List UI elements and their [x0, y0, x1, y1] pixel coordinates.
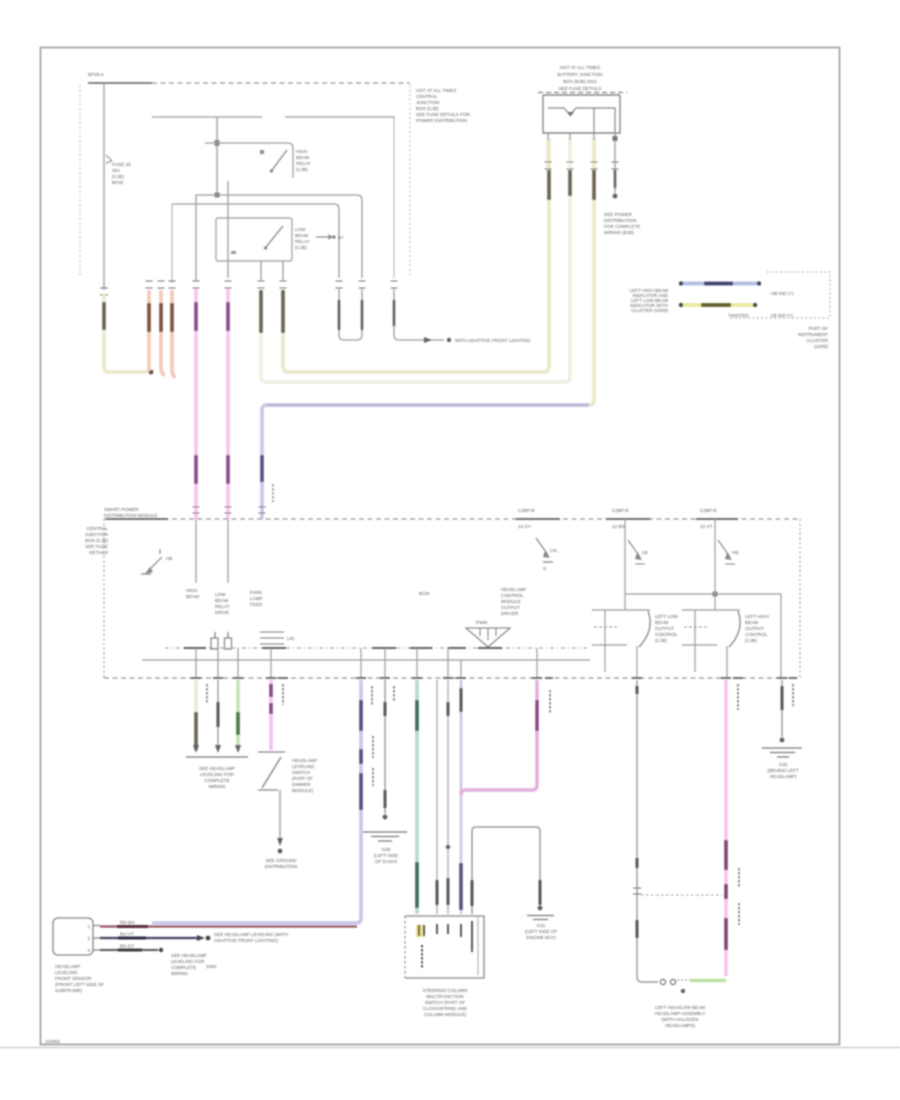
svg-text:BP29: BP29 — [112, 180, 124, 185]
svg-text:(BEHIND LEFT: (BEHIND LEFT — [767, 768, 799, 773]
svg-text:HIGH: HIGH — [296, 149, 307, 154]
connectors on teal output — [415, 700, 419, 908]
svg-text:FEED: FEED — [250, 602, 263, 607]
svg-text:G32: G32 — [779, 762, 788, 767]
wire: pink high beam output to headlamp — [724, 680, 728, 976]
svg-text:BP29-A: BP29-A — [88, 72, 105, 77]
wire: module bottom dashed boundary — [104, 677, 800, 679]
pin ticks lavender drop at module — [259, 507, 266, 513]
relay K3: low beam output relay — [592, 610, 650, 678]
wire: gray sensor return with terminus — [100, 949, 158, 951]
svg-text:BOX (BJB) 2011: BOX (BJB) 2011 — [563, 79, 597, 84]
node: hot-at-all-times bus segment (dark) — [88, 82, 152, 84]
wire: gray output 2 to column switch — [447, 680, 449, 914]
svg-text:WITH ADAPTIVE FRONT LIGHTING: WITH ADAPTIVE FRONT LIGHTING — [455, 338, 531, 343]
svg-text:12 BN: 12 BN — [612, 524, 625, 529]
svg-text:POWER DISTRIBUTION: POWER DISTRIBUTION — [416, 118, 467, 123]
label: switch S2 — [292, 758, 317, 793]
svg-text:LOW: LOW — [215, 592, 226, 597]
connector on ground G3 wire — [781, 686, 784, 710]
terminus dot off-page link — [447, 338, 451, 342]
wire: shield drain loop — [472, 827, 540, 914]
svg-text:HB: HB — [166, 556, 172, 561]
arrowhead navy signal — [197, 935, 205, 941]
connectors on pink feeds (upper) — [196, 302, 228, 331]
wire: left feed lower (natural/cream) to splice — [104, 293, 148, 372]
wire: maroon sensor feed — [100, 925, 357, 927]
label: headlamp leveling reference — [199, 766, 235, 789]
svg-text:2: 2 — [87, 936, 90, 941]
svg-text:SWITCH: SWITCH — [292, 770, 310, 775]
svg-text:PART OF: PART OF — [809, 326, 829, 331]
junction: feed drop joins line A — [215, 193, 220, 198]
wire: gray stub above pink 1 — [195, 204, 197, 281]
bracket line to leveling motor — [186, 756, 248, 758]
wire: internal bus bar right — [285, 116, 395, 118]
pin ticks pink pair — [193, 281, 232, 288]
svg-text:WIRING: WIRING — [171, 971, 189, 976]
pin ticks gray loop pair — [336, 281, 366, 288]
wire code labels beside lavender output — [372, 686, 394, 786]
connector on magenta output — [535, 700, 538, 731]
svg-text:C2BP-B: C2BP-B — [612, 508, 629, 513]
wire: magenta output to leveling switch — [269, 680, 273, 750]
svg-text:HEADLAMP ASSEMBLY: HEADLAMP ASSEMBLY — [655, 1011, 706, 1016]
wire: left feed from CJB (gray upper part) — [103, 83, 105, 290]
connector on right gray feed — [393, 300, 396, 326]
svg-text:TWISTED: TWISTED — [728, 313, 749, 318]
component: internal ladder element — [260, 632, 294, 644]
svg-text:BEAM: BEAM — [655, 620, 668, 625]
svg-text:S: S — [543, 566, 546, 571]
label: module name at left — [85, 526, 109, 555]
wire: internal bus bar left — [152, 116, 262, 118]
junction: supply bus to relay K4 feed — [713, 592, 718, 597]
connector on violet link lower — [459, 863, 463, 910]
connectors on gray loop — [339, 300, 362, 330]
wire: feed drop from bus to relay K1 — [216, 117, 218, 195]
ground symbol G3 — [762, 748, 802, 757]
pin number column — [421, 945, 423, 968]
wire: relay K1 output drop — [227, 181, 229, 278]
component: internal contact pair 1 — [211, 632, 232, 649]
connector pin segments on module bottom (right group) — [632, 677, 797, 679]
relay K1 switch blade — [260, 150, 287, 173]
connector label segments on internal rail — [184, 647, 502, 649]
footer separator line — [0, 1047, 900, 1049]
svg-text:BU-VT: BU-VT — [120, 932, 134, 937]
svg-text:DISTRIBUTION MODULE: DISTRIBUTION MODULE — [104, 513, 157, 518]
svg-text:SEE FUSE DETAILS: SEE FUSE DETAILS — [559, 86, 602, 91]
svg-text:SEE FUSE DETAILS FOR: SEE FUSE DETAILS FOR — [416, 112, 470, 117]
svg-text:SEE FUSE: SEE FUSE — [85, 544, 108, 549]
wire: right gray feed with off-page arrow — [394, 289, 444, 340]
svg-text:SEE GROUND: SEE GROUND — [266, 858, 298, 863]
svg-text:HB IND (+): HB IND (+) — [771, 291, 794, 296]
svg-text:HEADLAMP): HEADLAMP) — [770, 774, 797, 779]
svg-text:SEE HEADLAMP: SEE HEADLAMP — [199, 766, 235, 771]
wire: cream run B (relay K2 to BJB fuse pin 2) — [261, 138, 570, 382]
svg-text:LVL: LVL — [550, 548, 558, 553]
svg-text:LOW: LOW — [295, 227, 306, 232]
svg-text:C2BP-B: C2BP-B — [700, 508, 717, 513]
wire: jog between line A and line B — [195, 195, 197, 204]
connectors on lavender output — [359, 700, 363, 810]
arrowhead on ground leg — [277, 838, 283, 846]
svg-text:LEVELING FOR: LEVELING FOR — [171, 959, 205, 964]
wire: gray low beam output to headlamp — [637, 680, 658, 982]
label: headlamp control block — [501, 587, 526, 616]
wire: red feed 2 — [161, 290, 165, 375]
connector on cream run B left leg — [259, 290, 263, 333]
svg-text:CENTRAL: CENTRAL — [87, 526, 109, 531]
connectors on shield drain loop — [472, 880, 540, 906]
splice junction dot red/cream — [149, 370, 154, 375]
relay K4 feed drop — [714, 519, 716, 610]
svg-text:MODULE: MODULE — [501, 599, 521, 604]
wire code label beside cream output — [206, 684, 208, 703]
connectors on gray ground wire — [384, 702, 387, 808]
svg-text:SUBFRAME): SUBFRAME) — [55, 988, 83, 993]
relay K2 switch blade — [231, 226, 283, 254]
connectors on gray output 2 — [447, 702, 450, 905]
wire: green bulb jumper — [690, 979, 726, 982]
label: wire code beside lavender drop — [272, 484, 274, 502]
wire: cream run A (relay K2 to BJB fuse pin 1) — [283, 138, 549, 372]
inline connector bracket on low beam wire — [633, 888, 641, 894]
label: relay K3 — [655, 614, 679, 643]
wire: cream output to headlamp leveling — [194, 680, 198, 751]
svg-text:RELAY: RELAY — [215, 604, 230, 609]
connector on green output — [236, 712, 240, 735]
internal drop pink feed 1 — [195, 519, 197, 583]
svg-text:FRONT SENSOR: FRONT SENSOR — [55, 976, 92, 981]
fuse F2 element — [548, 108, 594, 117]
pin ticks right gray feed — [391, 281, 398, 288]
svg-text:C2BP-B: C2BP-B — [518, 508, 535, 513]
terminus dots blue lead — [679, 281, 683, 285]
svg-text:LEVELING: LEVELING — [55, 970, 78, 975]
svg-text:(CJB): (CJB) — [296, 167, 308, 172]
label: sensor name — [55, 964, 105, 993]
switch glyph at relay K4 feed — [718, 540, 738, 564]
wire: CJB top dashed boundary — [152, 82, 410, 84]
wire: gray output 1 to column switch — [436, 680, 438, 914]
connector pin segments on module bottom (left group) — [191, 677, 288, 679]
terminus dot gray return — [159, 948, 163, 952]
svg-text:CLOCKSPRING AND: CLOCKSPRING AND — [423, 1006, 468, 1011]
svg-text:PWM: PWM — [476, 620, 487, 625]
wire: pink high beam feed 1 — [194, 289, 198, 519]
svg-text:HIGH: HIGH — [186, 588, 197, 593]
wire: lavender output (headlamp leveling sensor feed) — [152, 680, 361, 923]
svg-text:10 VT: 10 VT — [700, 524, 712, 529]
connector: steering column multifunction switch — [405, 916, 484, 978]
connector on BJB pin 3 leg — [592, 170, 596, 200]
wire code stub beside magenta output — [549, 690, 551, 714]
wire: module left boundary — [103, 519, 105, 678]
svg-text:SMART POWER: SMART POWER — [104, 507, 139, 512]
pin stubs below BJB — [548, 133, 615, 142]
pin marker pad — [416, 925, 425, 937]
svg-text:1: 1 — [87, 924, 90, 929]
svg-text:3: 3 — [87, 948, 90, 953]
svg-text:BEAM: BEAM — [296, 155, 309, 160]
svg-text:DRIVE: DRIVE — [215, 610, 229, 615]
relay K1: high beam relay top bar — [205, 143, 293, 178]
label: relay K2 with leader arrow — [295, 227, 344, 250]
svg-text:DISTRIBUTION: DISTRIBUTION — [604, 218, 636, 223]
svg-text:HEADLAMP: HEADLAMP — [292, 758, 317, 763]
svg-text:CONTROL: CONTROL — [655, 632, 678, 637]
svg-text:ADAPTIVE FRONT LIGHTING): ADAPTIVE FRONT LIGHTING) — [214, 938, 279, 943]
svg-text:LEVELING FOR: LEVELING FOR — [200, 772, 234, 777]
relay K2: low beam relay body — [216, 218, 292, 261]
svg-text:BEAM: BEAM — [215, 598, 228, 603]
svg-text:OUTPUT: OUTPUT — [655, 626, 674, 631]
label segment on gray return — [118, 949, 142, 952]
svg-text:HEADLAMPS): HEADLAMPS) — [665, 1023, 695, 1028]
wire: pin 4 stub to terminus — [614, 140, 616, 193]
svg-text:PARK: PARK — [250, 590, 263, 595]
svg-text:RD-BN: RD-BN — [120, 920, 135, 925]
svg-text:CLUSTER: CLUSTER — [807, 338, 829, 343]
relay K3 feed drop — [624, 519, 626, 610]
svg-text:FUSE 29: FUSE 29 — [112, 162, 131, 167]
pin ticks cream pair from relay K2 — [258, 281, 287, 288]
svg-text:SWITCH (PART OF: SWITCH (PART OF — [425, 1000, 466, 1005]
pin stubs inside connector — [419, 921, 472, 952]
svg-text:(WITH HALOGEN: (WITH HALOGEN — [661, 1017, 698, 1022]
connector on left cream feed — [102, 302, 106, 330]
wire: drop from line B to red bundle — [171, 204, 173, 283]
wire: supply bus right drop — [780, 594, 782, 678]
wire: pink high beam feed 2 — [226, 289, 230, 519]
wire: gray U loop — [339, 289, 362, 340]
terminus dot navy signal — [206, 936, 211, 941]
mechanical link dashed line — [641, 894, 722, 896]
svg-text:LB: LB — [642, 550, 648, 555]
svg-text:MULTIFUNCTION: MULTIFUNCTION — [426, 994, 463, 999]
pin ticks below BJB — [545, 162, 619, 169]
svg-text:MODULE): MODULE) — [292, 788, 314, 793]
wire: module top dashed boundary — [104, 518, 800, 520]
terminus dot at ground G3 — [780, 738, 785, 743]
svg-text:14 GY: 14 GY — [518, 524, 531, 529]
wire: BJB top dashed boundary — [538, 92, 627, 94]
wire: teal output to column switch — [415, 680, 419, 914]
svg-text:(LEFT SIDE: (LEFT SIDE — [374, 853, 399, 858]
terminus dots yellow lead — [679, 303, 683, 307]
svg-text:JUNCTION: JUNCTION — [85, 532, 108, 537]
terminus dot at ground G1 — [383, 815, 388, 820]
wire code stub right group — [792, 684, 794, 706]
switch glyph S3 inside module — [536, 538, 558, 571]
svg-text:B+: B+ — [338, 235, 344, 240]
wire: relay K2 output stub right — [282, 261, 284, 280]
connector on pin 4 stub — [614, 170, 617, 188]
svg-text:LEVELING: LEVELING — [292, 764, 315, 769]
wire: cream leg of blue run (to BJB fuse pin 3) — [589, 138, 594, 405]
legend: twisted pair callout to instrument cluster — [630, 272, 830, 349]
label segment on navy signal — [118, 937, 146, 940]
svg-text:(CJB): (CJB) — [112, 174, 124, 179]
svg-text:HB: HB — [732, 550, 738, 555]
terminus dot at ground G2 — [538, 906, 543, 911]
wire: green output to headlamp leveling — [236, 680, 240, 751]
component: BJB fuse block body — [543, 95, 620, 133]
module: battery junction box (BJB) — [538, 65, 640, 235]
svg-text:WIRING: WIRING — [208, 784, 226, 789]
wire: gray output to ground G3 — [781, 680, 783, 737]
fusible link F1 on left feed — [106, 155, 131, 185]
svg-text:SEE POWER: SEE POWER — [604, 212, 633, 217]
connector on lavender drop — [260, 455, 264, 482]
internal output stubs to bottom boundary — [196, 648, 537, 678]
internal drop pink feed 2 — [227, 519, 229, 583]
wire: line B horizontal feed — [172, 204, 339, 278]
connector pin ticks on left feed — [100, 288, 108, 295]
junction: bus / feed drop — [215, 140, 220, 146]
off-page arrowheads into leveling bracket — [193, 745, 241, 753]
label: ground G1 — [374, 847, 399, 864]
connector on cream run B right leg — [568, 170, 572, 196]
connector stub on violet link upper — [460, 688, 463, 712]
svg-text:LEFT LOW: LEFT LOW — [655, 614, 679, 619]
connectors on red feeds — [149, 303, 172, 332]
svg-text:LIN: LIN — [287, 636, 294, 641]
svg-text:LAMP: LAMP — [250, 596, 263, 601]
svg-text:WIRING (BJB): WIRING (BJB) — [604, 230, 634, 235]
label: gray return reference — [171, 953, 207, 976]
connector on gray output 1 — [436, 880, 439, 905]
svg-text:STEERING COLUMN: STEERING COLUMN — [423, 988, 468, 993]
svg-text:CLUSTER (10R8): CLUSTER (10R8) — [631, 308, 668, 313]
connectors on pink feeds (lower) — [196, 455, 228, 484]
svg-text:SEE HEADLAMP LEVELING (WITH: SEE HEADLAMP LEVELING (WITH — [214, 932, 288, 937]
connector pin segments on module bottom (middle group) — [356, 677, 553, 679]
svg-text:FOR COMPLETE: FOR COMPLETE — [604, 224, 640, 229]
module: body control / lighting module box — [85, 507, 800, 678]
svg-text:30A: 30A — [112, 168, 121, 173]
connector on cream run A right leg — [547, 170, 551, 200]
label: headlamp assembly — [655, 1005, 706, 1028]
svg-text:(CJB): (CJB) — [655, 638, 667, 643]
switch glyph at relay K3 feed — [628, 540, 648, 564]
label segment on blue lead — [704, 282, 733, 286]
label: column switch name — [423, 988, 468, 1017]
svg-text:LEFT HIGH: LEFT HIGH — [745, 614, 769, 619]
svg-text:CONTROL: CONTROL — [745, 632, 768, 637]
connector on cream output — [194, 712, 198, 750]
svg-text:BCM: BCM — [419, 591, 429, 596]
svg-text:OUTPUT: OUTPUT — [745, 626, 764, 631]
svg-text:CONTROL: CONTROL — [501, 593, 524, 598]
internal link to pin 4 — [594, 108, 615, 133]
arrowhead on off-page link — [424, 337, 432, 343]
connectors on pink high beam wire — [724, 840, 728, 950]
wire: navy sensor signal with terminus — [100, 937, 201, 939]
pin ticks pink feeds at module — [193, 507, 232, 513]
wire: yellow indicator lead — [681, 303, 755, 307]
inner divider line — [477, 916, 479, 975]
label segment on yellow lead — [701, 303, 731, 307]
svg-text:BEAM: BEAM — [745, 620, 758, 625]
wire: violet link from BCM magenta output — [460, 680, 463, 914]
wire: magenta output from module — [461, 680, 537, 795]
component: headlamp leveling front sensor — [53, 918, 100, 955]
junction: pin 4 node — [613, 136, 618, 141]
terminus dot pin 4 — [613, 194, 618, 199]
svg-text:HEADLAMP: HEADLAMP — [501, 587, 526, 592]
wire: lavender drop to module — [262, 405, 267, 519]
lamp: low beam bulb glyphs — [660, 979, 692, 993]
svg-text:ENGINE BAY): ENGINE BAY) — [526, 935, 556, 940]
ground symbol G2 — [527, 916, 554, 920]
svg-text:102862: 102862 — [45, 1039, 61, 1044]
label: instrument cluster name — [798, 326, 829, 349]
connector label segments on top boundary — [106, 518, 738, 520]
wire code stub beside pink wire top — [737, 684, 739, 710]
module: central junction box (dashed outline) — [80, 72, 470, 283]
svg-text:(CJB): (CJB) — [295, 245, 307, 250]
wire: module right boundary — [799, 519, 801, 678]
svg-text:DRIVER: DRIVER — [501, 611, 519, 616]
terminus dot ground leg — [278, 849, 283, 854]
connector on gray output — [217, 702, 220, 727]
connector on cream run A left leg — [281, 290, 285, 333]
svg-text:DETAILS: DETAILS — [89, 550, 108, 555]
svg-text:CENTRAL: CENTRAL — [416, 94, 438, 99]
wire: gray output to ground G1 — [384, 680, 386, 814]
svg-text:BEAM: BEAM — [295, 233, 308, 238]
wire: CJB left dotted boundary — [79, 85, 81, 278]
wire: CJB right dotted boundary — [409, 85, 411, 278]
switch glyph S1 inside module — [141, 549, 172, 574]
wire: blue feed horizontal run — [267, 403, 589, 407]
svg-text:BEAM: BEAM — [186, 594, 199, 599]
relay K4: high beam output relay — [682, 610, 740, 678]
svg-text:HOT AT ALL TIMES: HOT AT ALL TIMES — [560, 65, 600, 70]
wire: relay supply bus — [625, 593, 781, 595]
junction dot on gray output 2 — [446, 845, 450, 849]
wire: right feed drop inside CJB — [393, 117, 395, 278]
label: relay K4 — [745, 614, 769, 643]
svg-text:COLUMN MODULE): COLUMN MODULE) — [424, 1012, 467, 1017]
label: ground G2 — [525, 923, 558, 940]
svg-text:(PART OF: (PART OF — [292, 776, 313, 781]
wire code stub beside switch feed — [282, 684, 284, 705]
svg-text:COMPLETE: COMPLETE — [204, 778, 229, 783]
svg-text:RELAY: RELAY — [295, 239, 310, 244]
svg-text:(10R8): (10R8) — [814, 344, 829, 349]
svg-text:S401: S401 — [206, 964, 217, 969]
svg-text:JUNCTION: JUNCTION — [416, 100, 439, 105]
svg-text:BATTERY JUNCTION: BATTERY JUNCTION — [557, 72, 602, 77]
ground symbol G1 — [363, 832, 407, 841]
pin stubs sensor — [93, 926, 100, 951]
svg-text:HEADLAMP: HEADLAMP — [55, 964, 80, 969]
connectors on gray low beam wire — [636, 686, 639, 938]
svg-text:SEE HEADLAMP: SEE HEADLAMP — [171, 953, 207, 958]
wire: gray output to headlamp leveling — [217, 680, 219, 751]
svg-text:HOT AT ALL TIMES: HOT AT ALL TIMES — [416, 88, 456, 93]
svg-text:BK-GY: BK-GY — [120, 944, 134, 949]
component: driver funnel glyph — [466, 620, 510, 647]
wire: relay K2 output stub left — [260, 261, 262, 280]
wire: internal dash-dot rail — [165, 647, 590, 649]
connector pin ticks red bundle — [146, 281, 176, 288]
